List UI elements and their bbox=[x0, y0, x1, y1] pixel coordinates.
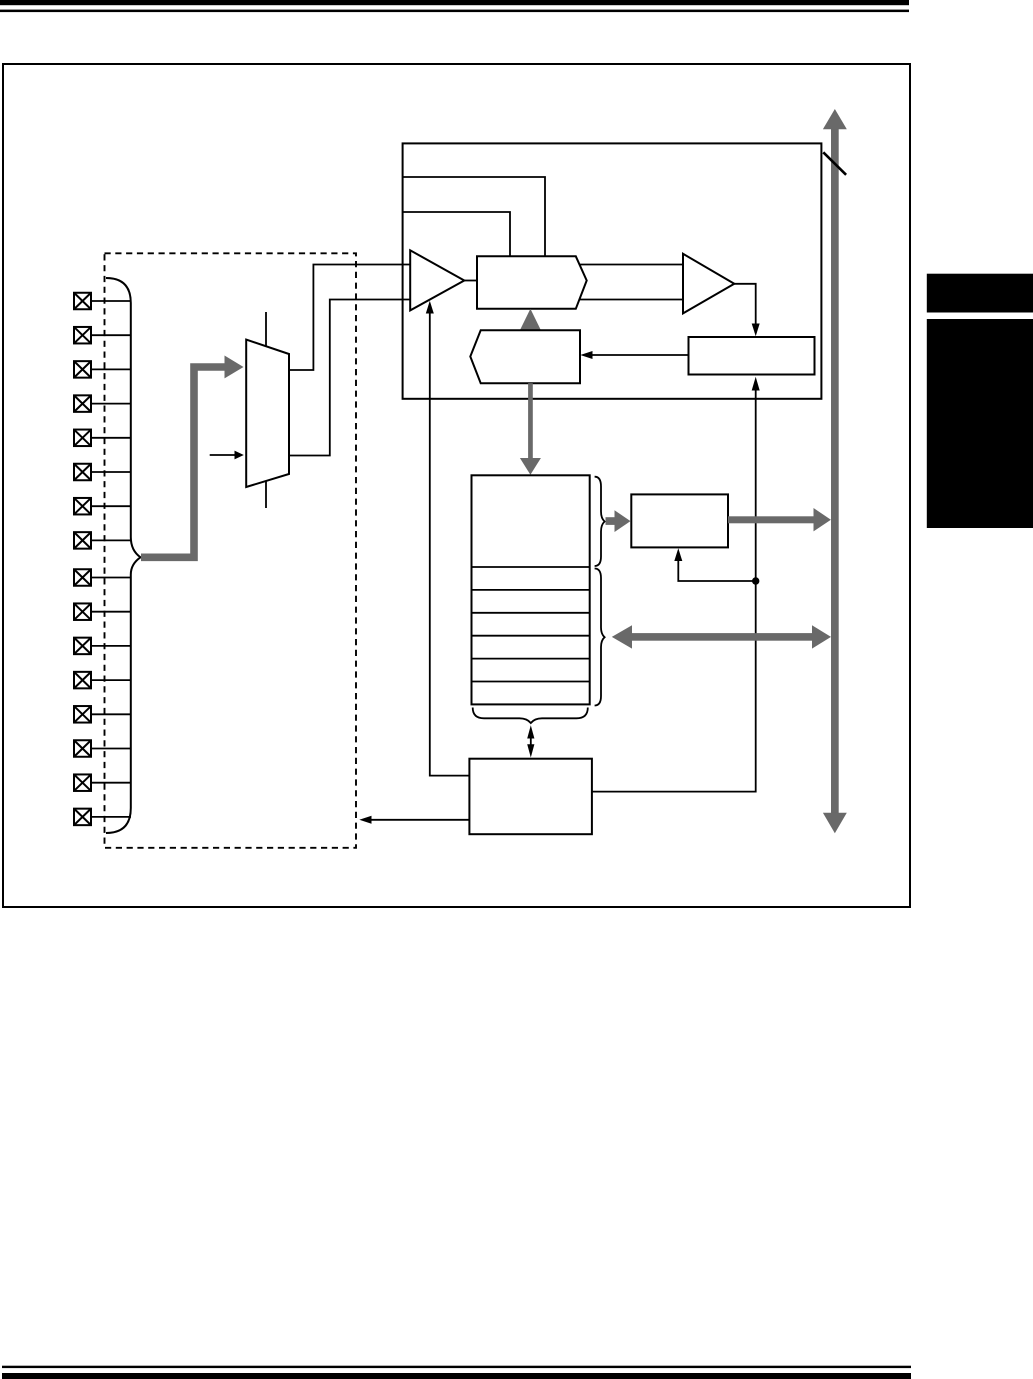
buffer divider 1 bbox=[472, 566, 590, 568]
converter block frame bbox=[403, 143, 822, 398]
branch wire to word count box bbox=[678, 560, 755, 581]
wire pin AN6 bbox=[92, 505, 131, 507]
arrowhead into DAC bbox=[580, 351, 592, 359]
comparator triangle bbox=[683, 254, 734, 314]
brace bottom bbox=[473, 708, 588, 724]
wire comparator to control reg bbox=[734, 284, 755, 333]
feedback wire 1 bbox=[403, 177, 545, 256]
data bus vertical bbox=[831, 128, 839, 814]
wire pin AN9 bbox=[92, 611, 131, 613]
header rule thin bbox=[0, 10, 909, 13]
double arrow buffer to bus interface bbox=[530, 736, 532, 746]
word count box bbox=[631, 494, 728, 547]
pin AN15 bbox=[74, 809, 91, 826]
arrowhead into dashed box bbox=[359, 816, 371, 824]
wire pin AN14 bbox=[92, 782, 131, 784]
wire pin AN12 bbox=[92, 713, 131, 715]
gray bus pins-to-mux arrowhead bbox=[225, 356, 244, 379]
wire pin AN4 bbox=[92, 437, 131, 439]
wire buffer to SAR bbox=[464, 280, 477, 282]
pin AN13 bbox=[74, 740, 91, 757]
arrowhead into word count box bottom bbox=[674, 548, 682, 561]
data bus arrowhead bottom bbox=[823, 813, 847, 833]
pin AN14 bbox=[74, 774, 91, 791]
buffer divider 4 bbox=[472, 635, 590, 637]
pin AN1 bbox=[74, 327, 91, 344]
side tab 2 bbox=[927, 319, 1033, 528]
buffer divider 2 bbox=[472, 589, 590, 591]
arrowhead into control reg bottom bbox=[752, 377, 760, 391]
gray arrow word count to data bus bbox=[728, 516, 814, 523]
gray arrowhead into result buffer bbox=[520, 458, 541, 475]
wire pin AN2 bbox=[92, 368, 131, 370]
gray double arrow buffer bus bbox=[631, 633, 813, 641]
footer rule thick bbox=[2, 1373, 911, 1379]
result buffer box bbox=[472, 475, 590, 704]
control register box bbox=[689, 337, 815, 375]
pin AN8 bbox=[74, 569, 91, 586]
arrowhead into control reg top bbox=[752, 324, 760, 337]
gray arrow brace to word count box bbox=[606, 517, 616, 525]
buffer divider 3 bbox=[472, 612, 590, 614]
feedback wire 2 bbox=[403, 212, 510, 256]
wire pin AN3 bbox=[92, 403, 131, 405]
wire mux output B bbox=[289, 300, 410, 456]
wire mux output A bbox=[289, 265, 410, 371]
wire from control to buffer amp bbox=[430, 313, 470, 776]
side tab 1 bbox=[927, 274, 1033, 313]
bus interface box bbox=[469, 759, 592, 835]
wire pin AN13 bbox=[92, 748, 131, 750]
mux bbox=[246, 340, 289, 487]
pin AN4 bbox=[74, 430, 91, 447]
brace collecting pins bbox=[106, 278, 141, 833]
brace right lower bbox=[595, 569, 605, 706]
wire pin AN10 bbox=[92, 645, 131, 647]
wire pin AN8 bbox=[92, 577, 131, 579]
figure frame bbox=[3, 64, 910, 907]
wire pin AN11 bbox=[92, 679, 131, 681]
wire SAR to comparator lower bbox=[580, 299, 683, 301]
pin AN0 bbox=[74, 293, 91, 310]
wire pin AN0 bbox=[92, 300, 131, 302]
DAC pentagon bbox=[470, 330, 580, 383]
pin AN6 bbox=[74, 498, 91, 515]
pin AN5 bbox=[74, 464, 91, 481]
mux select stub top bbox=[265, 312, 267, 347]
pin AN11 bbox=[74, 672, 91, 689]
wire pin AN15 bbox=[92, 816, 131, 818]
wire bus interface to pins group bbox=[371, 819, 469, 821]
data bus arrowhead top bbox=[823, 109, 847, 129]
junction dot bbox=[752, 577, 759, 584]
pin AN7 bbox=[74, 532, 91, 549]
buffer amp triangle bbox=[410, 250, 464, 310]
pin AN3 bbox=[74, 395, 91, 412]
buffer divider 6 bbox=[472, 681, 590, 683]
SAR block bbox=[477, 256, 587, 309]
wire status line vertical bbox=[592, 390, 756, 792]
pin AN10 bbox=[74, 638, 91, 655]
gray stem DAC to result buffer bbox=[528, 383, 533, 458]
arrowhead into buffer amp bbox=[426, 301, 434, 314]
wire SAR to comparator upper bbox=[580, 264, 683, 266]
brace right upper bbox=[595, 477, 605, 566]
mux alt input arrow bbox=[210, 454, 236, 456]
gray arrow up into SAR bbox=[520, 309, 541, 330]
wire pin AN5 bbox=[92, 471, 131, 473]
wire control reg to DAC bbox=[592, 354, 689, 356]
pin AN12 bbox=[74, 706, 91, 723]
dashed box (analog input pins group) bbox=[105, 253, 357, 848]
wire pin AN7 bbox=[92, 539, 131, 541]
pin AN9 bbox=[74, 603, 91, 620]
bus width tick bbox=[823, 152, 846, 175]
gray bus pins-to-mux bbox=[141, 367, 225, 557]
buffer divider 5 bbox=[472, 658, 590, 660]
footer rule thin bbox=[2, 1366, 911, 1368]
wire pin AN1 bbox=[92, 334, 131, 336]
header rule thick bbox=[0, 0, 909, 5]
pin AN2 bbox=[74, 361, 91, 378]
mux select stub bottom bbox=[265, 481, 267, 508]
